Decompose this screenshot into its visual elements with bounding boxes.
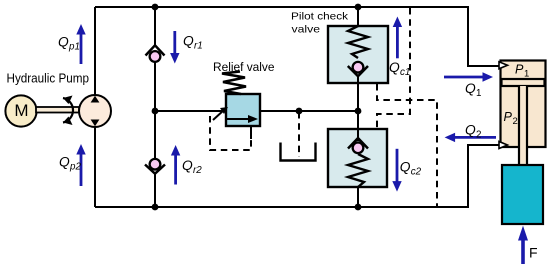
hydraulic pump P [79,95,111,127]
tank drain dashed line [298,112,300,157]
svg-text:r2: r2 [193,165,202,176]
flow arrow Qr2 [171,145,180,185]
svg-text:valve: valve [292,24,321,35]
flow arrow Q1 [444,72,493,81]
junction node relief line at tank drain [296,108,303,115]
svg-text:c1: c1 [400,67,410,78]
pilot check valve PC1 [328,26,388,83]
label Qc1 [389,60,410,78]
label Qc2 [400,160,422,178]
check valve CV1 [146,45,165,62]
label P1 [515,63,529,80]
relief valve inlet arrow [213,107,228,120]
flow arrow Qc1 [393,17,402,59]
port 2 marker [499,142,508,149]
label Qr2 [182,158,202,176]
flow arrow Qp1 [76,24,85,64]
motor M [5,95,36,126]
svg-text:Q: Q [58,35,69,50]
wire check valve column [154,7,156,207]
svg-text:F: F [529,244,538,260]
svg-text:1: 1 [524,69,529,80]
relief valve pilot dashed loop [210,116,251,150]
tank [281,143,316,161]
rotation arrow [63,96,73,126]
svg-text:Relief valve: Relief valve [213,60,275,74]
svg-text:Q: Q [465,81,476,96]
svg-text:Q: Q [182,158,193,173]
svg-text:p1: p1 [68,42,80,53]
svg-text:1: 1 [476,88,481,99]
svg-text:Q: Q [400,160,411,175]
label Qp1 [58,35,80,53]
label Q2 [465,123,481,141]
pilot line for PC2 from line 1 [377,8,410,128]
label Q1 [465,81,481,99]
junction node bottom bus at CV column [152,204,159,211]
label Qr1 [183,33,203,51]
svg-text:Hydraulic Pump: Hydraulic Pump [7,71,90,86]
junction node bottom bus at PC column [355,204,362,211]
load block [502,165,543,224]
flow arrow Qp2 [76,144,85,186]
piston rod [519,86,527,165]
junction node top bus at PC column [355,4,362,11]
wire top bus line 1 [95,7,501,66]
label Pilot check valve [291,12,349,36]
svg-text:Q: Q [59,155,70,170]
svg-text:Q: Q [183,33,194,48]
svg-text:2: 2 [476,130,481,141]
junction node top bus at CV column [152,4,159,11]
wire relief valve line [155,110,358,112]
svg-text:Q: Q [389,60,400,75]
port 1 marker [499,62,508,69]
svg-text:Q: Q [465,123,476,138]
flow arrow Qr1 [170,31,179,64]
svg-text:2: 2 [513,116,518,127]
svg-text:P: P [504,110,513,124]
flow arrow Qc2 [392,149,401,192]
svg-text:Pilot check: Pilot check [291,12,349,23]
label F [529,244,538,260]
force arrow F [518,226,528,264]
wire pump column [94,7,96,207]
wire bottom bus line 2 [95,145,501,207]
junction node relief line at CV column [152,108,159,115]
piston [502,79,545,86]
label P2 [504,110,518,127]
svg-text:r1: r1 [194,40,203,51]
label Qp2 [59,155,81,173]
shaft [36,107,79,113]
svg-text:M: M [14,101,28,120]
flow arrow Q2 [445,133,496,142]
relief valve [222,72,260,127]
svg-text:p2: p2 [69,162,81,173]
check valve CV2 [145,159,165,174]
junction node relief line at PC column [355,108,362,115]
svg-text:P: P [515,63,524,77]
label Relief valve [213,60,275,74]
svg-text:c2: c2 [411,167,422,178]
pilot line for PC1 from line 2 [377,84,437,206]
wire pilot check valve column [357,7,359,207]
cylinder body [501,61,546,148]
pilot check valve PC2 [328,129,387,187]
label Hydraulic Pump [7,71,90,86]
